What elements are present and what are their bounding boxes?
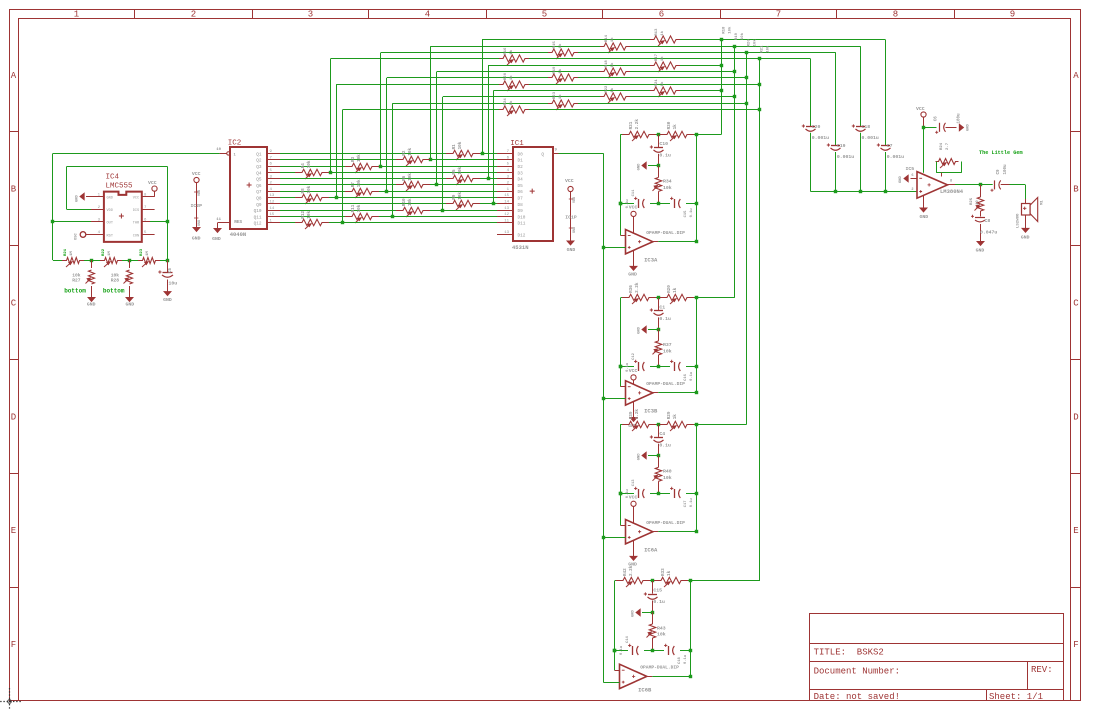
- resistor R40 10k: [653, 456, 672, 494]
- svg-text:2.2k: 2.2k: [635, 119, 640, 130]
- svg-text:C18: C18: [862, 124, 871, 130]
- svg-text:D11: D11: [518, 222, 526, 227]
- svg-text:GND: GND: [638, 163, 642, 171]
- svg-text:Q10: Q10: [254, 209, 262, 214]
- wire matrix row 6: [437, 70, 737, 185]
- svg-text:IC5: IC5: [906, 166, 915, 172]
- svg-text:C1: C1: [659, 305, 665, 311]
- VCC stage3: [629, 495, 638, 524]
- svg-text:C: C: [1073, 299, 1079, 309]
- ground stage3 opamp: [628, 540, 637, 567]
- svg-text:RST: RST: [107, 234, 114, 238]
- svg-text:D5: D5: [518, 184, 524, 189]
- svg-text:14: 14: [270, 207, 275, 211]
- wire Q8 net: [280, 196, 497, 199]
- svg-text:0.047u: 0.047u: [980, 230, 997, 236]
- trimmer R22: [100, 248, 122, 267]
- wire LM380 output: [948, 183, 993, 186]
- svg-text:R9: R9: [452, 194, 457, 200]
- resistor R3 10k: [345, 154, 379, 173]
- svg-text:15: 15: [270, 213, 275, 217]
- svg-text:10k: 10k: [740, 32, 745, 40]
- wire stage3 left branch: [619, 424, 626, 525]
- svg-text:IC3A: IC3A: [644, 256, 658, 263]
- ground at IC4 pin 1: [76, 193, 92, 202]
- IC1 input pin stubs: [497, 154, 513, 235]
- ground stage1 opamp: [628, 250, 637, 277]
- svg-text:Q2: Q2: [256, 159, 262, 164]
- svg-text:1k: 1k: [610, 37, 615, 42]
- capacitor stage3 left 0.1u: [626, 479, 644, 499]
- svg-text:100u: 100u: [1004, 164, 1008, 175]
- svg-text:Q3: Q3: [256, 165, 262, 170]
- wire Q11 net: [280, 215, 497, 218]
- resistor R1 10k: [446, 141, 480, 160]
- wire Q5 net: [280, 177, 497, 180]
- svg-text:14: 14: [504, 201, 509, 205]
- svg-text:GND: GND: [919, 214, 928, 220]
- capacitor stage3 right 0.1u: [670, 487, 694, 508]
- svg-text:R20: R20: [504, 72, 508, 80]
- svg-text:D8: D8: [518, 203, 524, 208]
- svg-text:GND: GND: [976, 247, 985, 253]
- svg-text:D9: D9: [518, 209, 524, 214]
- IC1 pin numbers: [504, 150, 509, 235]
- svg-text:DIS: DIS: [133, 209, 139, 213]
- wire stage4 +IN: [603, 682, 619, 684]
- svg-text:IC6A: IC6A: [644, 546, 658, 553]
- svg-text:R43: R43: [657, 625, 666, 631]
- svg-text:100u: 100u: [958, 113, 962, 124]
- svg-text:R37: R37: [663, 342, 672, 348]
- resistor R37 10k: [653, 329, 672, 367]
- svg-text:R19: R19: [553, 66, 557, 74]
- svg-text:R7: R7: [351, 182, 356, 188]
- svg-text:M1: M1: [1041, 200, 1045, 205]
- wire stage1 +IN: [603, 247, 625, 249]
- svg-text:R12: R12: [301, 211, 306, 219]
- svg-text:C16: C16: [684, 373, 688, 381]
- bus wire 1: [721, 40, 723, 135]
- wire matrix row 10: [443, 95, 737, 210]
- capacitor stage1 left 0.1u: [626, 189, 644, 209]
- svg-text:VCC: VCC: [629, 495, 638, 501]
- frame column numbers: [74, 10, 1015, 20]
- svg-text:2.7: 2.7: [946, 142, 950, 150]
- wire stage1 output: [653, 134, 698, 243]
- wire stage2 top: [621, 296, 735, 299]
- svg-text:11: 11: [504, 219, 509, 223]
- svg-text:E: E: [1073, 526, 1078, 536]
- svg-text:C12: C12: [632, 352, 636, 360]
- svg-text:9: 9: [1010, 10, 1015, 20]
- svg-text:VCC: VCC: [133, 197, 139, 201]
- svg-text:IC6B: IC6B: [638, 687, 652, 694]
- svg-text:R1: R1: [452, 144, 457, 150]
- resistor matrix row8.1: [499, 72, 529, 91]
- svg-text:B: B: [1073, 185, 1079, 195]
- VCC stage1: [629, 205, 638, 233]
- resistor R7 10k: [345, 179, 379, 198]
- capacitor C19 0.001u: [827, 143, 854, 160]
- IC1 origin cross: [530, 189, 535, 194]
- svg-text:VDD: VDD: [198, 190, 202, 196]
- wire Q1 net: [280, 152, 497, 155]
- resistor R36: [622, 282, 656, 304]
- op-amp IC5 LM380N4: [911, 172, 952, 199]
- capacitor C18 0.001u: [852, 124, 879, 141]
- svg-text:10k: 10k: [357, 154, 362, 162]
- wire stage2 output: [653, 298, 698, 394]
- wire mixer bus: [811, 190, 918, 193]
- svg-text:0.1u: 0.1u: [659, 316, 671, 322]
- svg-text:13: 13: [504, 231, 509, 235]
- svg-text:B: B: [11, 185, 17, 195]
- svg-text:R33: R33: [661, 568, 666, 576]
- svg-text:VCC: VCC: [148, 180, 157, 186]
- svg-text:GND: GND: [899, 175, 903, 183]
- speaker LS1: [1016, 198, 1044, 229]
- svg-text:R21: R21: [760, 45, 764, 53]
- svg-text:R2: R2: [402, 150, 407, 156]
- capacitor stage2 left 0.1u: [626, 352, 644, 372]
- svg-text:0.001u: 0.001u: [837, 154, 854, 160]
- svg-text:C11: C11: [632, 189, 636, 197]
- title block box: [810, 614, 1064, 701]
- resistor matrix row1.1: [650, 28, 680, 46]
- IC2 output pin stubs: [267, 154, 280, 223]
- svg-text:R25: R25: [970, 197, 974, 205]
- svg-text:Sheet: 1/1: Sheet: 1/1: [989, 692, 1043, 702]
- svg-text:Q6: Q6: [256, 184, 262, 189]
- svg-text:Document Number:: Document Number:: [814, 666, 900, 676]
- svg-text:THR: THR: [133, 222, 140, 226]
- wire stage3 top: [621, 423, 747, 426]
- svg-text:0.1u: 0.1u: [690, 371, 694, 381]
- wire matrix row 11: [393, 102, 749, 217]
- bus top labels: [723, 26, 771, 53]
- svg-text:Q7: Q7: [256, 190, 262, 195]
- svg-text:C8: C8: [985, 218, 991, 224]
- IC1 output pin: [552, 149, 558, 154]
- svg-text:8: 8: [893, 10, 898, 20]
- svg-text:4531N: 4531N: [512, 244, 529, 251]
- svg-text:1k: 1k: [558, 94, 563, 99]
- svg-text:VDD: VDD: [573, 197, 577, 203]
- IC2 reset pin and ground: [212, 218, 242, 242]
- resistor matrix row10.1: [600, 85, 630, 103]
- svg-text:IC1P: IC1P: [565, 215, 577, 221]
- svg-text:R30: R30: [667, 121, 672, 129]
- svg-text:R23: R23: [140, 248, 144, 256]
- svg-text:R21: R21: [64, 248, 68, 256]
- svg-text:10k: 10k: [357, 204, 362, 212]
- svg-text:GND: GND: [192, 236, 201, 242]
- VCC stage2: [629, 368, 638, 384]
- svg-text:10k: 10k: [663, 349, 672, 355]
- svg-text:GND: GND: [198, 220, 202, 226]
- ground LM380 -IN: [899, 175, 917, 183]
- svg-text:GND: GND: [1021, 234, 1030, 240]
- power symbol IC1P: [565, 178, 577, 253]
- ground C8: [976, 242, 985, 254]
- svg-text:10k: 10k: [458, 141, 463, 149]
- wire matrix row 3: [381, 51, 836, 166]
- svg-text:2.2k: 2.2k: [635, 282, 640, 293]
- svg-text:R40: R40: [663, 469, 672, 475]
- svg-text:10k: 10k: [408, 173, 413, 181]
- svg-text:OPAMP-DUAL.DIP: OPAMP-DUAL.DIP: [646, 381, 685, 387]
- bus wire 2: [734, 46, 736, 298]
- resistor R12 10k: [295, 211, 329, 229]
- IC2 output pin numbers: [270, 150, 275, 223]
- capacitor C10 0.1u: [650, 134, 671, 165]
- svg-text:Q4: Q4: [256, 171, 262, 176]
- svg-text:VCC: VCC: [629, 368, 638, 374]
- svg-text:1k: 1k: [673, 414, 678, 420]
- IC1 body 4531N: [513, 147, 553, 241]
- svg-text:10k: 10k: [408, 198, 413, 206]
- IC4 left pin stubs: [91, 197, 104, 235]
- resistor matrix row5.1: [650, 53, 680, 72]
- svg-text:R4: R4: [301, 163, 306, 169]
- svg-text:R8: R8: [301, 188, 306, 194]
- svg-text:R34: R34: [663, 179, 672, 185]
- svg-text:13: 13: [504, 207, 509, 211]
- svg-text:R10: R10: [402, 198, 407, 206]
- IC4 pin name labels: [107, 197, 141, 239]
- svg-text:R28: R28: [111, 277, 120, 283]
- svg-text:5: 5: [542, 10, 547, 20]
- wire Q9 net: [280, 202, 497, 205]
- svg-text:OPAMP-DUAL.DIP: OPAMP-DUAL.DIP: [646, 520, 685, 526]
- resistor R34 10k: [653, 166, 672, 204]
- svg-text:15: 15: [504, 194, 509, 198]
- svg-text:D3: D3: [518, 171, 524, 176]
- resistor matrix row4.1: [499, 47, 529, 65]
- svg-text:R16: R16: [504, 47, 508, 55]
- svg-text:Q: Q: [541, 152, 544, 157]
- svg-text:F: F: [11, 640, 16, 650]
- svg-text:10k: 10k: [765, 45, 770, 53]
- svg-text:IC1: IC1: [510, 140, 524, 148]
- wire matrix row 9: [494, 89, 724, 204]
- svg-text:R29: R29: [667, 411, 672, 419]
- resistor R5 10k: [446, 166, 480, 185]
- svg-text:1: 1: [74, 10, 79, 20]
- svg-text:1k: 1k: [509, 49, 514, 54]
- svg-text:R42: R42: [623, 568, 628, 576]
- svg-text:1k: 1k: [558, 68, 563, 73]
- svg-text:1k: 1k: [660, 30, 665, 35]
- resistor R42: [616, 565, 650, 587]
- svg-text:GND: GND: [163, 297, 172, 303]
- svg-text:D2: D2: [518, 165, 524, 170]
- svg-text:0.1u: 0.1u: [690, 497, 694, 507]
- svg-text:D10: D10: [518, 215, 526, 220]
- svg-text:10k: 10k: [307, 160, 312, 168]
- svg-text:C4: C4: [659, 431, 665, 437]
- resistor R4 10k: [295, 160, 329, 179]
- bus wire 4: [759, 59, 761, 581]
- svg-text:VCC: VCC: [565, 178, 574, 184]
- svg-text:R3: R3: [351, 156, 356, 162]
- frame row ticks left and right: [9, 132, 1081, 588]
- svg-text:D6: D6: [518, 190, 524, 195]
- svg-text:10: 10: [216, 148, 221, 152]
- VCC LM380: [916, 106, 926, 173]
- svg-text:10k: 10k: [458, 166, 463, 174]
- svg-text:1k: 1k: [673, 124, 678, 130]
- svg-text:D12: D12: [518, 234, 526, 239]
- svg-text:0.001u: 0.001u: [887, 154, 904, 160]
- wire stage2 middle: [619, 365, 698, 368]
- svg-text:0.1u: 0.1u: [653, 599, 665, 605]
- svg-text:2.2k: 2.2k: [629, 565, 634, 576]
- svg-text:6: 6: [911, 174, 913, 178]
- wire Q7 net: [280, 190, 497, 193]
- svg-text:0.001u: 0.001u: [862, 135, 879, 141]
- op-amp IC6B: [620, 664, 647, 688]
- svg-text:C5: C5: [169, 267, 173, 273]
- svg-text:C19: C19: [837, 143, 846, 149]
- svg-text:10u: 10u: [169, 281, 178, 287]
- op-amp IC6A: [626, 520, 653, 544]
- svg-text:R5: R5: [452, 169, 457, 175]
- svg-text:R39: R39: [629, 411, 634, 419]
- capacitor stage4 right 0.1u: [664, 644, 688, 664]
- resistor R8 10k: [295, 185, 329, 204]
- svg-text:GND: GND: [638, 326, 642, 334]
- wire matrix row 8: [337, 83, 762, 198]
- svg-text:C17: C17: [684, 500, 688, 508]
- svg-text:R36: R36: [629, 285, 634, 293]
- svg-text:1k: 1k: [509, 100, 514, 105]
- svg-text:IC2P: IC2P: [190, 203, 202, 209]
- wire mixer drop C18: [860, 46, 862, 191]
- svg-text:D: D: [11, 412, 16, 422]
- svg-text:D7: D7: [518, 197, 524, 202]
- svg-text:12: 12: [504, 213, 509, 217]
- svg-text:R24: R24: [504, 98, 508, 106]
- wire mixer drop C19: [835, 52, 837, 191]
- svg-text:C18: C18: [678, 656, 682, 664]
- svg-text:R20: R20: [667, 285, 672, 293]
- resistor R24 feedback: [936, 142, 962, 176]
- resistor R30: [660, 121, 694, 141]
- svg-text:R19: R19: [735, 32, 739, 40]
- capacitor stage2 right 0.1u: [670, 360, 694, 381]
- svg-text:6: 6: [659, 10, 664, 20]
- svg-text:10k: 10k: [753, 39, 758, 47]
- svg-text:2.2k: 2.2k: [635, 409, 640, 420]
- VCC at IC4 pin 8: [148, 180, 157, 197]
- trimmer R23: [138, 248, 160, 267]
- wire Q6 net: [280, 183, 497, 186]
- svg-text:1k: 1k: [667, 570, 672, 576]
- wire Q3 net: [280, 165, 497, 168]
- svg-text:0.1u: 0.1u: [659, 442, 671, 448]
- ground stage3 filter: [638, 452, 661, 460]
- svg-text:The Little Gem: The Little Gem: [979, 150, 1023, 156]
- ground stage4 filter: [632, 609, 655, 617]
- wire stage3 +IN: [603, 537, 625, 539]
- svg-text:10k: 10k: [458, 192, 463, 200]
- resistor matrix row11.1: [548, 91, 578, 110]
- svg-text:GND: GND: [87, 302, 96, 308]
- svg-text:R18: R18: [605, 60, 609, 68]
- capacitor C7 0.001u: [877, 143, 904, 160]
- svg-text:C15: C15: [653, 588, 662, 594]
- svg-text:12: 12: [270, 201, 275, 205]
- capacitor C6 100u: [924, 113, 971, 134]
- resistor R39: [622, 409, 656, 431]
- resistor R43 10k: [647, 612, 666, 650]
- svg-text:REV:: REV:: [1031, 665, 1053, 675]
- svg-text:R14: R14: [605, 34, 609, 42]
- svg-text:OUT: OUT: [107, 222, 114, 226]
- capacitor C15 0.1u: [644, 581, 665, 612]
- svg-text:LS2W8O: LS2W8O: [1016, 213, 1020, 228]
- svg-text:Q12: Q12: [254, 222, 262, 227]
- svg-text:GND: GND: [567, 247, 576, 253]
- trimmer R28 10k: [111, 260, 133, 298]
- svg-text:R17: R17: [655, 53, 659, 61]
- svg-text:10k: 10k: [728, 26, 733, 34]
- svg-text:10: 10: [976, 200, 980, 205]
- svg-text:R15: R15: [553, 41, 557, 49]
- power symbol IC2P: [190, 171, 202, 242]
- svg-text:Q9: Q9: [256, 203, 262, 208]
- resistor R25: [970, 185, 984, 217]
- svg-text:OSC: OSC: [75, 232, 79, 240]
- resistor R11 10k: [345, 204, 379, 223]
- IC1 D labels: [518, 152, 545, 238]
- svg-text:GND: GND: [573, 227, 577, 233]
- svg-text:10k: 10k: [408, 148, 413, 156]
- svg-text:D1: D1: [518, 159, 524, 164]
- resistor matrix row6.1: [600, 60, 630, 78]
- svg-text:1k: 1k: [610, 87, 615, 92]
- svg-text:GND: GND: [76, 194, 80, 202]
- svg-text:GND: GND: [967, 123, 971, 131]
- svg-text:GND: GND: [212, 236, 221, 242]
- svg-text:1k: 1k: [660, 81, 665, 86]
- resistor matrix row12.1: [499, 98, 529, 116]
- svg-text:C: C: [11, 299, 17, 309]
- svg-text:4040N: 4040N: [230, 231, 247, 238]
- resistor R33: [654, 568, 688, 587]
- capacitor C5 10u: [158, 260, 177, 292]
- svg-text:10k: 10k: [307, 211, 312, 219]
- svg-text:C20: C20: [812, 124, 821, 130]
- svg-text:C15: C15: [684, 210, 688, 218]
- svg-text:Q11: Q11: [254, 215, 262, 220]
- svg-text:R22: R22: [605, 85, 609, 93]
- svg-text:GND: GND: [632, 609, 636, 617]
- svg-text:1k: 1k: [610, 62, 615, 67]
- ground LM380 bottom: [919, 195, 928, 220]
- svg-text:LMC555: LMC555: [106, 182, 134, 190]
- svg-text:D: D: [1073, 412, 1078, 422]
- svg-text:D4: D4: [518, 178, 524, 183]
- svg-text:1k: 1k: [673, 287, 678, 293]
- capacitor C9 output 100u: [991, 164, 1010, 192]
- wire matrix row 12: [343, 108, 762, 223]
- wire stage2 +IN: [603, 398, 625, 400]
- wire 555 TRG-THR loop: [67, 167, 170, 261]
- svg-text:10k: 10k: [663, 185, 672, 191]
